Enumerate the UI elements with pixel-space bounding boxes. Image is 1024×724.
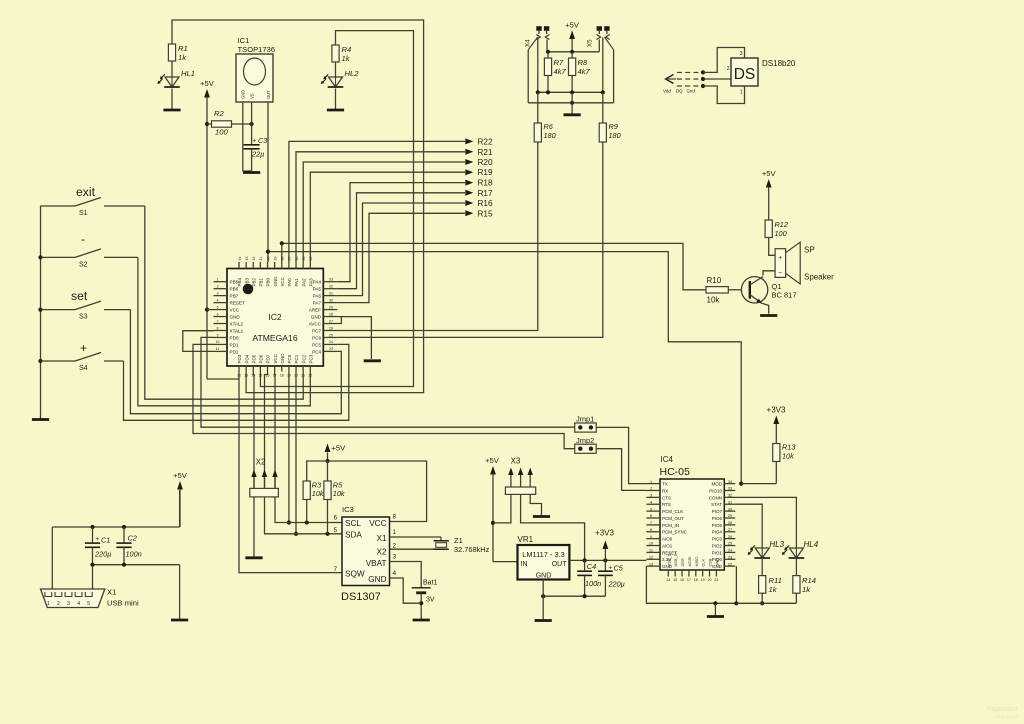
power +5V (speaker)	[762, 169, 777, 220]
svg-text:22: 22	[728, 562, 732, 566]
node R2/C3 junction	[250, 122, 254, 126]
svg-text:25: 25	[329, 333, 333, 337]
svg-text:PA5: PA5	[313, 287, 322, 292]
ground HL2	[327, 109, 344, 112]
wire PD0 to Jmp1	[201, 337, 575, 427]
wire R10 net	[280, 241, 706, 290]
wire VR1 IN	[493, 561, 518, 563]
wire USB top rail	[52, 490, 179, 529]
wire X4 blade	[528, 37, 538, 103]
resistor R2	[207, 109, 252, 137]
svg-text:IC2: IC2	[268, 312, 282, 322]
svg-text:38: 38	[281, 257, 285, 261]
wire X4 sleeve to +5V rail	[546, 40, 548, 52]
connector X2	[250, 458, 279, 497]
wire PD1 to Jmp2	[193, 344, 575, 448]
power +5V (RTC)	[325, 444, 347, 464]
jumper Jmp2	[575, 436, 597, 453]
svg-text:CSB: CSB	[708, 558, 713, 566]
svg-text:6: 6	[217, 312, 219, 316]
wire VR1 OUT to HC-05	[569, 558, 646, 562]
svg-text:180: 180	[609, 131, 621, 140]
svg-text:PC4: PC4	[312, 349, 321, 354]
svg-text:+5V: +5V	[332, 444, 347, 453]
wire X2 pin1 net	[252, 372, 255, 489]
svg-text:PB7: PB7	[230, 294, 239, 299]
svg-text:31: 31	[728, 500, 732, 504]
svg-text:1k: 1k	[802, 585, 811, 594]
svg-text:32: 32	[728, 494, 732, 498]
svg-text:9: 9	[217, 333, 219, 337]
svg-text:PA4: PA4	[313, 280, 322, 285]
resistor R6	[534, 92, 555, 142]
svg-text:42: 42	[252, 257, 256, 261]
svg-text:R2: R2	[214, 109, 224, 118]
svg-text:AIO0: AIO0	[662, 537, 673, 542]
svg-text:C4: C4	[587, 562, 596, 571]
svg-text:X1: X1	[107, 588, 116, 597]
svg-text:S2: S2	[79, 262, 88, 269]
svg-text:PA3: PA3	[309, 278, 314, 287]
wire USB pin1	[51, 527, 53, 589]
ground X2	[245, 556, 262, 559]
svg-text:24: 24	[728, 549, 732, 553]
svg-text:PIO1: PIO1	[712, 550, 723, 555]
svg-text:PIO4: PIO4	[712, 530, 723, 535]
svg-text:HL3: HL3	[769, 540, 784, 549]
svg-text:CONN: CONN	[709, 495, 722, 500]
svg-text:29: 29	[728, 514, 732, 518]
speaker SP	[775, 242, 834, 284]
svg-text:HL1: HL1	[181, 69, 195, 78]
svg-text:PC5: PC5	[312, 342, 321, 347]
svg-text:X4: X4	[525, 39, 532, 47]
svg-text:35: 35	[302, 257, 306, 261]
svg-text:19: 19	[701, 578, 705, 582]
svg-text:HC-05: HC-05	[660, 466, 691, 478]
svg-text:11: 11	[649, 549, 653, 553]
svg-text:33: 33	[728, 487, 732, 491]
svg-text:XTAL1: XTAL1	[230, 328, 244, 333]
wire X3 pin1 to +5V	[493, 494, 511, 523]
svg-text:AIO1: AIO1	[662, 543, 673, 548]
node R2/+5V junction	[205, 122, 209, 126]
svg-text:PIO10: PIO10	[709, 488, 722, 493]
svg-text:CLK: CLK	[701, 559, 706, 567]
svg-text:SCL: SCL	[345, 519, 361, 528]
svg-text:GND: GND	[536, 573, 552, 580]
wire MOD net (IC1 OUT to HC-05)	[266, 250, 741, 484]
wire S4 to IC2	[124, 344, 349, 420]
svg-text:R14: R14	[802, 576, 816, 585]
ground USB	[171, 619, 188, 622]
svg-text:LM1117 - 3.3: LM1117 - 3.3	[522, 550, 564, 559]
jumper Jmp1	[575, 415, 597, 433]
wire +5V rail RTC	[307, 461, 427, 522]
svg-text:7: 7	[650, 521, 652, 525]
ground HL1	[163, 109, 180, 112]
wire DQ to DS	[703, 78, 731, 80]
svg-text:SDA: SDA	[345, 531, 362, 540]
svg-text:X1: X1	[376, 534, 386, 543]
svg-text:22: 22	[308, 374, 312, 378]
svg-text:PA7: PA7	[313, 301, 322, 306]
svg-text:2: 2	[217, 284, 219, 288]
svg-text:PD1: PD1	[230, 342, 239, 347]
wire X2 pin3 net	[274, 372, 276, 489]
power +3V3 (R13)	[767, 406, 786, 444]
wire R20 net	[303, 162, 465, 262]
svg-text:R1: R1	[178, 44, 188, 53]
wire R19 net	[310, 172, 465, 262]
svg-text:R12: R12	[775, 220, 788, 229]
wire Gnd loop	[703, 86, 745, 104]
svg-text:220µ: 220µ	[94, 550, 111, 559]
ground HC-05	[707, 615, 724, 618]
LED HL4	[782, 540, 819, 558]
svg-text:S4: S4	[79, 365, 88, 372]
svg-text:4k7: 4k7	[554, 67, 567, 76]
wire blade bus	[528, 101, 613, 105]
svg-text:OUT: OUT	[266, 90, 271, 99]
svg-text:3: 3	[740, 51, 743, 57]
svg-text:R8: R8	[578, 58, 588, 67]
wire VR1 gnd bus	[541, 580, 605, 620]
wire X2 pin2 net	[265, 372, 268, 489]
wire R4-HL2	[335, 62, 337, 77]
resistor R9	[599, 92, 620, 142]
wire HC-05 gnd frame	[646, 566, 738, 605]
resistor R11	[759, 576, 782, 606]
power +5V (VR1)	[485, 456, 500, 562]
IC IC2 ATMEGA16	[214, 257, 338, 378]
svg-text:GND: GND	[230, 315, 241, 320]
wire Vdd dashed	[677, 71, 703, 73]
svg-text:12: 12	[649, 555, 653, 559]
wire STAT to HL3	[735, 504, 762, 548]
svg-text:S1: S1	[79, 210, 88, 217]
svg-text:R6: R6	[544, 122, 554, 131]
svg-text:DSR: DSR	[680, 558, 685, 566]
svg-text:R4: R4	[342, 45, 352, 54]
svg-text:4: 4	[650, 500, 652, 504]
svg-text:41: 41	[259, 257, 263, 261]
svg-text:BC 817: BC 817	[772, 291, 797, 300]
svg-text:13: 13	[244, 374, 248, 378]
svg-text:33: 33	[329, 278, 333, 282]
ground switches	[32, 418, 49, 421]
svg-text:3: 3	[67, 601, 70, 607]
transistor Q1	[741, 277, 796, 304]
battery Bat1	[412, 580, 438, 604]
svg-text:34: 34	[728, 480, 732, 484]
svg-text:PD5: PD5	[251, 354, 256, 363]
svg-text:2: 2	[727, 66, 730, 72]
svg-text:USB mini: USB mini	[107, 599, 139, 608]
svg-text:GND: GND	[311, 315, 322, 320]
svg-text:PB2: PB2	[251, 277, 256, 286]
wire SQW net	[239, 372, 342, 573]
svg-text:CTS: CTS	[662, 495, 671, 500]
svg-text:44: 44	[238, 257, 242, 261]
svg-text:26: 26	[329, 326, 333, 330]
wire X2-SDA	[265, 497, 343, 536]
svg-text:13: 13	[649, 562, 653, 566]
svg-text:RTS: RTS	[662, 502, 671, 507]
wire IC1 OUT down	[267, 102, 269, 262]
wire X5 blade	[605, 37, 614, 103]
svg-text:PD3: PD3	[237, 354, 242, 363]
svg-text:180: 180	[544, 131, 556, 140]
wire battery to gnd	[419, 593, 423, 619]
svg-text:GND: GND	[280, 353, 285, 364]
resistor R10	[706, 276, 741, 305]
svg-text:18: 18	[280, 374, 284, 378]
svg-text:40: 40	[266, 257, 270, 261]
svg-text:R13: R13	[782, 443, 795, 452]
svg-text:R7: R7	[554, 58, 564, 67]
svg-text:RESET: RESET	[230, 301, 246, 306]
svg-text:15: 15	[673, 578, 677, 582]
svg-text:PIO3: PIO3	[712, 537, 723, 542]
svg-text:RX: RX	[662, 488, 668, 493]
svg-text:PIO2: PIO2	[712, 543, 723, 548]
svg-text:+3V3: +3V3	[595, 529, 614, 538]
label cable pins	[663, 89, 695, 94]
svg-text:+5V: +5V	[762, 169, 777, 178]
wire R17 net	[337, 193, 465, 289]
node Gnd	[701, 84, 705, 88]
svg-text:VCC: VCC	[369, 519, 386, 528]
svg-text:28: 28	[329, 312, 333, 316]
svg-text:+5V: +5V	[173, 471, 188, 480]
svg-text:21: 21	[301, 374, 305, 378]
svg-text:+: +	[96, 536, 100, 543]
svg-text:PC0: PC0	[287, 354, 292, 363]
svg-text:+: +	[609, 565, 613, 572]
svg-text:Vdd: Vdd	[663, 89, 671, 94]
svg-text:9: 9	[650, 535, 652, 539]
power +5V (jacks)	[565, 21, 580, 52]
svg-text:IC4: IC4	[661, 455, 674, 464]
svg-text:1: 1	[47, 601, 50, 607]
svg-text:R11: R11	[769, 576, 782, 585]
sensor cable arrow	[666, 75, 677, 84]
svg-text:PD6: PD6	[259, 354, 264, 363]
svg-text:10: 10	[216, 340, 220, 344]
svg-text:STAT: STAT	[711, 502, 722, 507]
svg-text:39: 39	[273, 257, 277, 261]
svg-text:100n: 100n	[126, 550, 142, 559]
wire X2-SCL	[275, 497, 342, 525]
power +5V (IR)	[200, 79, 215, 379]
regulator VR1 LM1117	[518, 535, 570, 580]
capacitor C4	[577, 560, 601, 596]
IC DS18b20	[727, 51, 796, 96]
svg-text:IC1: IC1	[238, 36, 250, 45]
svg-text:3: 3	[217, 291, 219, 295]
svg-text:5: 5	[333, 527, 337, 534]
svg-text:32: 32	[329, 284, 333, 288]
node R22 arrow	[465, 137, 493, 146]
svg-text:17: 17	[687, 578, 691, 582]
resistor R14	[793, 576, 816, 604]
svg-text:10k: 10k	[782, 452, 794, 461]
svg-text:PD0: PD0	[230, 335, 239, 340]
svg-text:PA1: PA1	[294, 278, 299, 287]
wire DQ dashed	[677, 78, 703, 80]
svg-text:PIO7: PIO7	[712, 509, 723, 514]
capacitor C5	[598, 560, 625, 596]
svg-text:R17: R17	[478, 189, 493, 198]
switch S1 (exit)	[41, 185, 145, 217]
wire S2 to IC2	[138, 257, 310, 405]
wire switch rail	[38, 206, 42, 419]
svg-text:PC7: PC7	[312, 328, 321, 333]
resistor R13	[773, 443, 796, 484]
watermark	[987, 706, 1019, 719]
wire X3 pin3 to gnd	[530, 494, 541, 515]
svg-text:+3V3: +3V3	[767, 406, 786, 415]
svg-text:220µ: 220µ	[608, 580, 625, 589]
wire MOD to R13	[741, 483, 776, 485]
wire +5V rail	[546, 50, 599, 54]
svg-text:31: 31	[329, 291, 333, 295]
svg-text:PCM_OUT: PCM_OUT	[662, 516, 684, 521]
svg-text:PB3: PB3	[244, 277, 249, 286]
svg-text:2: 2	[650, 487, 652, 491]
svg-text:VBAT: VBAT	[366, 559, 387, 568]
svg-text:PCM_SYNC: PCM_SYNC	[662, 530, 688, 535]
svg-text:1k: 1k	[178, 53, 187, 62]
svg-text:36: 36	[295, 257, 299, 261]
svg-text:11: 11	[216, 347, 220, 351]
svg-text:PD4: PD4	[244, 354, 249, 363]
svg-text:PIO6: PIO6	[712, 516, 723, 521]
wire R1-HL1	[171, 61, 173, 77]
svg-text:R22: R22	[478, 137, 493, 146]
svg-text:Gnd: Gnd	[687, 89, 696, 94]
capacitor C3	[244, 136, 268, 171]
svg-text:C1: C1	[101, 536, 110, 545]
ground Q1	[760, 314, 777, 317]
svg-text:Bat1: Bat1	[423, 580, 438, 587]
wire HL3-R11	[761, 558, 763, 576]
svg-text:4: 4	[77, 601, 80, 607]
wire SDA vertical	[294, 372, 298, 536]
wire X3 pin2 to 3V3	[521, 494, 585, 560]
svg-text:PB0: PB0	[266, 277, 271, 286]
svg-text:24: 24	[329, 340, 333, 344]
capacitor C1	[85, 527, 111, 589]
svg-text:Speaker: Speaker	[804, 273, 834, 282]
wire gnd stem X4X5	[571, 92, 573, 114]
svg-text:+: +	[253, 138, 257, 145]
svg-text:6: 6	[650, 514, 652, 518]
svg-text:C3: C3	[258, 136, 267, 145]
resistor R1	[168, 44, 187, 62]
resistor R5	[324, 481, 345, 534]
switch S3 (set)	[41, 289, 131, 321]
svg-text:27: 27	[728, 528, 732, 532]
wire USB gnd rail	[90, 563, 179, 619]
ground IC2	[364, 359, 381, 362]
svg-text:2: 2	[393, 543, 397, 550]
connector X1 USB mini	[41, 588, 139, 608]
svg-text:23: 23	[728, 555, 732, 559]
svg-text:4k7: 4k7	[578, 67, 591, 76]
svg-text:X3: X3	[511, 457, 521, 466]
svg-text:3: 3	[393, 554, 397, 561]
svg-text:exit: exit	[76, 185, 96, 199]
wire X2 gnd pin	[253, 497, 255, 557]
svg-text:5: 5	[650, 507, 652, 511]
svg-text:OUT: OUT	[552, 561, 568, 568]
svg-text:18: 18	[694, 578, 698, 582]
svg-text:PA2: PA2	[301, 278, 306, 287]
svg-text:6: 6	[333, 515, 337, 522]
wire R21 net	[296, 152, 465, 262]
svg-text:−: −	[778, 270, 782, 277]
node Vdd	[701, 70, 705, 74]
node DQ	[701, 77, 705, 81]
svg-text:GND: GND	[714, 558, 719, 567]
IC IC4 HC-05	[646, 455, 735, 582]
node R16 arrow	[465, 199, 493, 208]
svg-text:PC6: PC6	[312, 335, 321, 340]
svg-text:1k: 1k	[342, 54, 351, 63]
svg-text:DS: DS	[734, 66, 756, 83]
svg-text:+: +	[778, 255, 782, 262]
svg-text:AVCC: AVCC	[309, 322, 322, 327]
wire IC1 GND pin	[243, 102, 252, 171]
resistor R7	[544, 52, 566, 93]
svg-text:8: 8	[393, 514, 397, 521]
resistor R3	[303, 481, 324, 523]
wire R18 net	[337, 183, 465, 282]
svg-text:R18: R18	[478, 179, 493, 188]
svg-text:TSOP1736: TSOP1736	[238, 45, 276, 54]
wire R4 top net to IC2	[260, 31, 413, 387]
ground VR1	[535, 619, 552, 622]
svg-text:1: 1	[217, 278, 219, 282]
node R21 arrow	[465, 148, 493, 157]
wire VBAT to battery	[390, 562, 422, 588]
svg-text:8: 8	[217, 326, 219, 330]
node R20 arrow	[465, 158, 493, 167]
wire PD2-XTAL1 loop	[183, 331, 214, 352]
svg-text:+5V: +5V	[565, 21, 580, 30]
svg-text:set: set	[71, 289, 88, 303]
svg-text:PB4: PB4	[237, 277, 242, 286]
svg-text:PB1: PB1	[259, 277, 264, 286]
wire HL2-gnd	[335, 89, 337, 110]
svg-text:25: 25	[728, 542, 732, 546]
svg-text:1k: 1k	[769, 585, 778, 594]
svg-text:X2: X2	[256, 458, 266, 467]
svg-text:37: 37	[288, 257, 292, 261]
svg-text:21: 21	[714, 578, 718, 582]
wire speaker minus to Q1 collector	[763, 271, 775, 276]
svg-text:100n: 100n	[585, 579, 601, 588]
svg-text:DS1307: DS1307	[341, 591, 381, 603]
svg-text:26: 26	[728, 535, 732, 539]
wire R6 to IC2 PC7	[337, 142, 538, 331]
wire VCC left pin	[207, 310, 239, 379]
wire X5 sleeve to +5V rail	[598, 40, 600, 52]
wire HL1-gnd	[171, 89, 173, 110]
svg-text:VCC: VCC	[280, 276, 285, 286]
